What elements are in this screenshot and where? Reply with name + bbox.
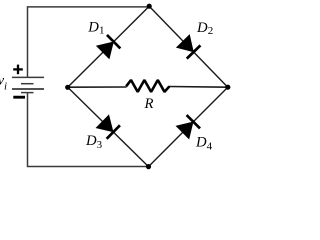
node left bbox=[65, 85, 70, 90]
wire diamond edge top node to right node bbox=[149, 6, 228, 87]
wire resistor right lead bbox=[169, 86, 228, 89]
svg-text:R: R bbox=[144, 96, 154, 112]
svg-text:i: i bbox=[4, 81, 7, 93]
battery source v_i plates bbox=[12, 77, 44, 92]
diode D3 bbox=[96, 114, 121, 139]
svg-text:D: D bbox=[195, 135, 207, 151]
wire resistor left lead bbox=[68, 86, 127, 88]
wire diamond edge left node to top node bbox=[68, 6, 150, 87]
diode D1 bbox=[96, 35, 121, 60]
wire diamond edge bottom node to right node bbox=[149, 87, 228, 166]
node top bbox=[147, 4, 152, 9]
svg-text:4: 4 bbox=[207, 140, 213, 152]
minus sign bbox=[13, 96, 25, 99]
wire diamond edge left node to bottom node bbox=[68, 87, 149, 166]
svg-text:D: D bbox=[85, 133, 97, 149]
svg-text:1: 1 bbox=[99, 24, 105, 36]
node bottom bbox=[146, 164, 151, 169]
svg-text:D: D bbox=[87, 19, 99, 35]
svg-text:3: 3 bbox=[97, 139, 103, 151]
diode D4 bbox=[176, 115, 201, 140]
plus sign bbox=[13, 65, 23, 75]
svg-text:D: D bbox=[196, 20, 208, 36]
svg-text:2: 2 bbox=[208, 25, 214, 37]
wire top rail from source to top node bbox=[28, 7, 150, 78]
wire bottom rail from source to bottom node bbox=[28, 92, 149, 166]
diode D2 bbox=[176, 34, 201, 59]
node right bbox=[225, 85, 230, 90]
resistor R zigzag bbox=[126, 80, 169, 92]
